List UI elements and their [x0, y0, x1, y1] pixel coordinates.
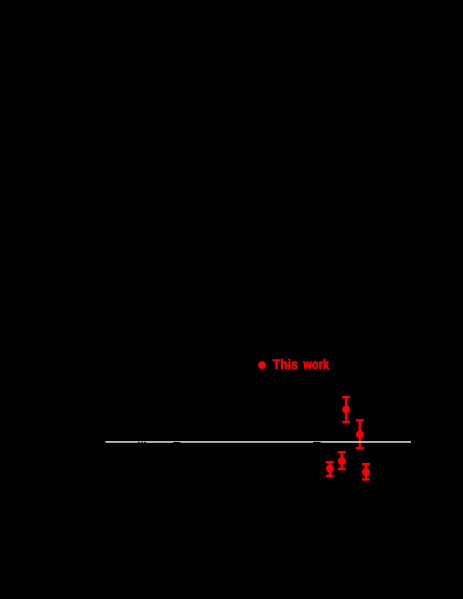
error bar P1 — [342, 397, 350, 422]
marker P3 — [326, 465, 334, 473]
error bar P2 — [356, 420, 364, 448]
black dot 2 on line — [141, 442, 143, 444]
error bar P3 — [326, 462, 334, 476]
black dot 3 on line — [144, 442, 146, 444]
legend marker — [258, 361, 266, 369]
black dot 1 on line — [138, 442, 140, 444]
marker P4 — [338, 457, 346, 465]
marker P2 — [356, 431, 364, 439]
svg-text:This: This — [273, 356, 298, 372]
black dash B on line — [313, 442, 321, 444]
gray reference line — [105, 441, 411, 443]
marker P1 — [342, 406, 350, 414]
error bar P5 — [362, 464, 370, 480]
marker P5 — [362, 468, 370, 476]
svg-text:work: work — [303, 356, 330, 372]
error bar P4 — [338, 452, 346, 469]
black dash A on line — [173, 442, 180, 443]
